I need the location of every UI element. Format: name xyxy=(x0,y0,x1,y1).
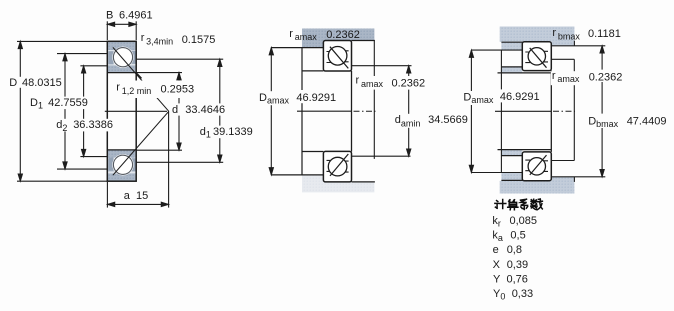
svg-text:46.9291: 46.9291 xyxy=(500,91,540,103)
contact angle line through bottom ball (right) xyxy=(530,155,547,175)
housing bore edge lines xyxy=(501,41,523,43)
svg-text:0.2362: 0.2362 xyxy=(589,71,623,83)
dimension d1 xyxy=(136,59,223,162)
svg-text:0.2953: 0.2953 xyxy=(161,83,195,95)
svg-text:a: a xyxy=(124,190,131,202)
ball bottom (left) xyxy=(113,155,132,174)
hanzi shu4 xyxy=(531,199,543,210)
svg-text:48.0315: 48.0315 xyxy=(22,77,62,89)
housing bore lines right xyxy=(551,58,574,60)
svg-text:33.4646: 33.4646 xyxy=(185,104,225,116)
centerline xyxy=(297,110,352,112)
svg-text:36.3386: 36.3386 xyxy=(73,119,113,131)
dimension B xyxy=(107,21,136,40)
svg-text:0,39: 0,39 xyxy=(507,259,528,271)
svg-text:6.4961: 6.4961 xyxy=(119,10,153,22)
shaft surface lines xyxy=(498,72,552,74)
svg-text:0,33: 0,33 xyxy=(512,288,533,300)
svg-text:34.5669: 34.5669 xyxy=(428,114,468,126)
right edge connector (right bearing) xyxy=(550,71,552,152)
ball bottom (middle) xyxy=(328,157,347,176)
right edge connector xyxy=(351,71,353,152)
svg-text:D: D xyxy=(9,77,17,89)
top abutment band xyxy=(302,29,374,41)
bearing top ring section box (middle) xyxy=(323,41,351,72)
hanzi xi4 xyxy=(521,199,528,209)
bore lines of sections xyxy=(107,72,136,74)
band bottom/top edges + Dbmax ext xyxy=(551,45,605,47)
centerline xyxy=(495,110,551,112)
left diagram texts xyxy=(8,10,253,202)
dimension D xyxy=(17,41,107,181)
svg-text:e: e xyxy=(493,244,499,256)
shaft shoulder blocks xyxy=(501,67,522,72)
svg-text:0,5: 0,5 xyxy=(510,230,525,242)
bottom abutment band (faint) xyxy=(302,182,374,193)
contact angle line through top ball (right) xyxy=(530,48,547,68)
hanzi suan4 xyxy=(508,200,518,210)
svg-text:46.9291: 46.9291 xyxy=(296,92,336,104)
dimension Damax xyxy=(269,48,273,175)
top box internals xyxy=(327,51,349,63)
bearing bottom ring section box (middle) xyxy=(323,151,351,182)
dimension Damax right xyxy=(469,50,522,172)
dimension d2 xyxy=(80,66,107,157)
svg-text:0.2362: 0.2362 xyxy=(326,29,360,41)
dimension d (bore) xyxy=(136,73,182,151)
top band xyxy=(500,27,575,42)
top box internals xyxy=(525,51,548,62)
dimension Dbmax xyxy=(600,46,604,177)
band step verticals xyxy=(573,41,575,46)
centerline left xyxy=(105,110,167,112)
svg-text:0,085: 0,085 xyxy=(510,215,538,227)
svg-text:47.4409: 47.4409 xyxy=(627,116,667,128)
ball top (right) xyxy=(528,48,545,65)
contact angle line bottom xyxy=(113,111,169,175)
shaft lines xyxy=(302,70,323,72)
middle texts xyxy=(258,28,470,129)
svg-text:42.7559: 42.7559 xyxy=(48,97,88,109)
contact angle line top xyxy=(113,47,169,111)
bottom box internals xyxy=(327,160,349,172)
ball top (left) xyxy=(113,48,132,67)
contact angle line through top ball (middle) xyxy=(330,47,348,69)
bearing outline rect xyxy=(107,41,136,181)
bearing top ring section box (right) xyxy=(522,42,551,71)
svg-text:0.2362: 0.2362 xyxy=(392,77,426,89)
right texts xyxy=(462,27,667,129)
shaft block edges xyxy=(501,66,522,68)
bottom band xyxy=(500,181,575,194)
dimension D1 xyxy=(57,54,107,170)
housing shoulder vertical xyxy=(301,48,303,175)
svg-text:d: d xyxy=(172,104,178,116)
svg-text:B: B xyxy=(106,10,113,22)
svg-text:0.1181: 0.1181 xyxy=(588,28,621,40)
svg-text:15: 15 xyxy=(136,190,148,202)
ball bottom (right) xyxy=(528,158,545,175)
bottom box internals xyxy=(525,160,548,171)
r 1,2 min leader stub xyxy=(137,73,142,78)
svg-text:X: X xyxy=(493,259,501,271)
bearing left: top section fills xyxy=(108,42,136,73)
bearing left: bottom section fills xyxy=(108,150,136,181)
svg-text:0,8: 0,8 xyxy=(507,244,522,256)
hanzi ji3 xyxy=(495,200,506,209)
dimension damin xyxy=(352,66,412,157)
dimension a xyxy=(107,111,168,207)
shaft edge vertical xyxy=(373,41,375,159)
svg-text:0.1575: 0.1575 xyxy=(182,34,216,46)
svg-text:Y: Y xyxy=(493,273,501,285)
contact angle line through bottom ball (middle) xyxy=(330,154,348,176)
svg-text:0,76: 0,76 xyxy=(507,273,528,285)
bearing bottom ring section box (right) xyxy=(522,152,551,181)
band edge lines xyxy=(271,47,324,49)
ball top (middle) xyxy=(328,47,347,66)
svg-text:39.1339: 39.1339 xyxy=(213,126,253,138)
